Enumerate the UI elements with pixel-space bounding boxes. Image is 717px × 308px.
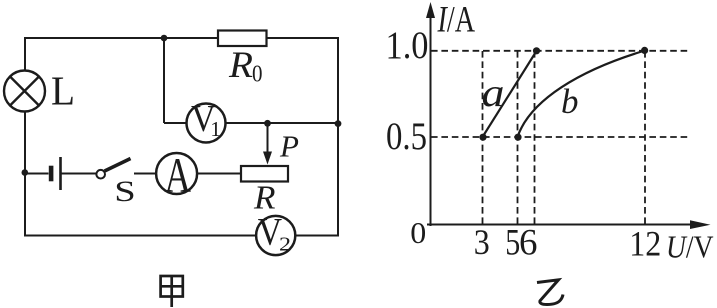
svg-text:S: S: [114, 175, 136, 208]
svg-text:A: A: [165, 147, 192, 203]
svg-text:3: 3: [474, 222, 490, 262]
svg-text:U/V: U/V: [666, 229, 714, 265]
svg-text:b: b: [561, 82, 579, 121]
svg-text:0.5: 0.5: [386, 114, 427, 158]
svg-text:2: 2: [279, 235, 291, 256]
svg-text:0: 0: [252, 62, 263, 88]
svg-text:a: a: [482, 70, 505, 115]
svg-text:6: 6: [519, 221, 538, 262]
svg-text:R: R: [253, 179, 276, 216]
svg-text:R: R: [228, 45, 253, 86]
svg-text:P: P: [279, 129, 299, 164]
svg-text:I/A: I/A: [437, 0, 475, 41]
svg-text:L: L: [51, 68, 75, 114]
svg-text:12: 12: [629, 224, 661, 264]
svg-text:1.0: 1.0: [386, 23, 429, 67]
svg-text:1: 1: [210, 117, 221, 141]
svg-text:0: 0: [410, 215, 426, 250]
